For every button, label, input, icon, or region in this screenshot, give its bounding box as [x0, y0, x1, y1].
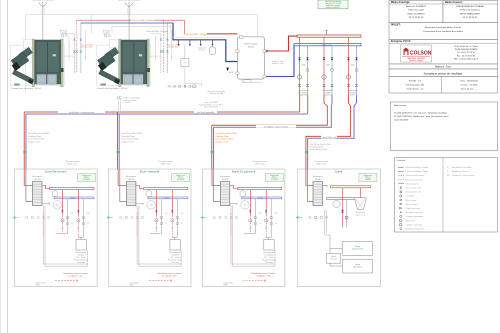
distribution pair P34 return	[214, 95, 333, 169]
buffer tank	[238, 37, 265, 79]
supply manifold (red)	[297, 35, 361, 37]
boiler CH2 pipe cluster	[150, 20, 179, 73]
secondary gray line	[112, 27, 173, 33]
svg-text:Tube acier DN80 - Calorifuge: Tube acier DN80 - Calorifuge	[146, 30, 168, 33]
svg-text:Comptage energie: Comptage energie	[252, 160, 267, 163]
svg-text:Reseau chauffage - Depart: Reseau chauffage - Depart	[406, 166, 429, 169]
svg-text:PROJET:: PROJET:	[391, 24, 401, 26]
air separator	[198, 45, 216, 55]
svg-text:DN40 - isole: DN40 - isole	[161, 164, 171, 166]
note under mains	[199, 101, 223, 108]
svg-text:Filtre a tamis: Filtre a tamis	[406, 199, 417, 202]
svg-text:03 27 49 99 38: 03 27 49 99 38	[409, 17, 424, 19]
svg-text:calorifuge 30mm: calorifuge 30mm	[80, 46, 93, 49]
tank outlet circle	[266, 50, 268, 52]
project note green box	[318, 0, 348, 9]
svg-text:Chaufferie bois dediee: Chaufferie bois dediee	[325, 1, 341, 3]
sub4 green info box	[359, 174, 377, 182]
svg-text:5 Rue du Castel: 5 Rue du Castel	[408, 9, 424, 12]
svg-text:59244 GRAND-FAYT: 59244 GRAND-FAYT	[460, 12, 481, 15]
sub4 riser in box	[306, 169, 313, 185]
svg-text:Mail : carlsoncol@orange.fr: Mail : carlsoncol@orange.fr	[454, 59, 479, 61]
substation 4 Eglise box	[298, 169, 381, 287]
svg-text:DN40: DN40	[301, 65, 305, 67]
svg-text:Chaudiere bois dechiquete - 15: Chaudiere bois dechiquete - 150 kW	[97, 87, 128, 90]
svg-text:ATELIER AMELIE FONTAINE: ATELIER AMELIE FONTAINE	[456, 5, 484, 8]
echelle table	[389, 77, 498, 94]
chimney flue at x=129.1	[118, 0, 141, 42]
legend box	[395, 158, 498, 233]
P12 second label	[194, 111, 217, 114]
safety group CH2	[103, 30, 111, 37]
svg-text:DN40 - isole: DN40 - isole	[316, 164, 326, 166]
tank to return manifold pipe	[266, 45, 294, 77]
svg-text:Fax : 03 27 25 49 80: Fax : 03 27 25 49 80	[457, 55, 476, 57]
svg-text:Aerotherme Thermibloc: Aerotherme Thermibloc	[452, 166, 472, 169]
riser substation 2	[117, 112, 119, 169]
boiler CH1 pipe cluster	[64, 20, 93, 73]
svg-text:3000 L: 3000 L	[248, 46, 255, 48]
svg-text:Purgeur automatique: Purgeur automatique	[406, 215, 424, 218]
riser note sub2	[121, 133, 142, 143]
boiler CH2 burner	[97, 47, 120, 85]
svg-text:Ballon tampon: Ballon tampon	[244, 43, 258, 46]
chimney flue at x=42.8	[32, 0, 55, 42]
svg-text:Entreprise CVC-P:: Entreprise CVC-P:	[391, 40, 411, 43]
tank drain loop	[242, 79, 262, 83]
sheet border left inner	[7, 0, 9, 333]
svg-text:70/50 C: 70/50 C	[365, 177, 371, 179]
sub4 supply bar	[323, 186, 328, 187]
riser entry label sub4	[314, 160, 329, 166]
title block: maitre d ouvrage box	[389, 1, 443, 23]
svg-text:de boues: de boues	[199, 50, 206, 52]
svg-text:Tube acier DN80 - Calorifuge: Tube acier DN80 - Calorifuge	[132, 19, 154, 22]
svg-text:Ecole maternelle: Ecole maternelle	[140, 170, 160, 174]
drain symbols row	[167, 85, 196, 88]
sub4 return bar	[327, 198, 363, 200]
distribution pair P12 return	[26, 95, 308, 169]
svg-text:Reseau vapeur: Reseau vapeur	[406, 182, 419, 185]
svg-text:Sonde de temperature: Sonde de temperature	[406, 228, 425, 231]
svg-text:Renovation thermique Mairie &: Renovation thermique Mairie & Ecole	[425, 26, 462, 29]
svg-text:Liaison enterree 80cm: Liaison enterree 80cm	[28, 138, 46, 141]
substation 2 Ecole maternelle	[107, 169, 191, 287]
svg-text:Liaison enterree 80cm: Liaison enterree 80cm	[215, 138, 233, 141]
svg-text:Construction d'une chaufferie: Construction d'une chaufferie bois dedie…	[423, 30, 464, 33]
svg-text:Groupe: Groupe	[355, 264, 360, 266]
return manifold (blue)	[294, 44, 361, 46]
title block: entreprise box	[389, 40, 498, 65]
tank ports	[236, 35, 266, 77]
tank side note	[272, 60, 285, 65]
primary supply label top	[131, 19, 154, 22]
svg-text:Calorifuge 30mm: Calorifuge 30mm	[121, 136, 135, 138]
svg-text:Date : 13/10/2023: Date : 13/10/2023	[460, 80, 478, 83]
manifold vent	[325, 30, 328, 35]
svg-text:Clapet anti-retour: Clapet anti-retour	[406, 207, 421, 210]
buffer tank label	[244, 43, 258, 49]
svg-text:disconnecteur BA: disconnecteur BA	[209, 92, 223, 95]
svg-text:Synoptique reseau de chauffage: Synoptique reseau de chauffage	[424, 71, 463, 75]
svg-text:Unite dessin : cm: Unite dessin : cm	[407, 88, 424, 91]
legend right column	[447, 166, 475, 177]
manifold circuit drop 2	[322, 37, 334, 96]
svg-text:Tube PE pre-isole 2xDN40: Tube PE pre-isole 2xDN40	[215, 133, 236, 135]
svg-text:Legende: Legende	[397, 160, 406, 162]
svg-text:59530 JOLIMETZ: 59530 JOLIMETZ	[407, 13, 425, 15]
chaufferie room outline	[26, 15, 258, 94]
svg-text:DN40: DN40	[350, 65, 354, 67]
riser valve set sub4	[305, 151, 308, 153]
svg-text:Vanne TA: Vanne TA	[406, 219, 415, 222]
svg-text:Compteur d'energie: Compteur d'energie	[406, 223, 423, 226]
P34 line label	[256, 125, 296, 128]
svg-text:Pompe des Circuits boucle: Pompe des Circuits boucle	[452, 174, 475, 177]
distribution pair PC supply to sub4	[306, 95, 351, 169]
batiment row	[389, 64, 498, 69]
svg-text:Longueur 25 ml: Longueur 25 ml	[28, 141, 41, 143]
svg-text:Maternelle: Maternelle	[300, 94, 308, 97]
svg-text:enterre: enterre	[350, 94, 355, 97]
pot a boues	[181, 45, 202, 87]
svg-text:Comptage energie: Comptage energie	[158, 160, 173, 163]
boiler CH2 body	[97, 39, 151, 87]
svg-text:Tube PE pre-isole 2xDN40: Tube PE pre-isole 2xDN40	[309, 144, 330, 146]
svg-text:Sonde T2 - bas: Sonde T2 - bas	[272, 63, 284, 65]
svg-text:Liaison enterree 80cm: Liaison enterree 80cm	[121, 138, 139, 141]
svg-text:Vanne d'arret - 2D: Vanne d'arret - 2D	[406, 187, 422, 190]
svg-text:Liaison enterree 80cm: Liaison enterree 80cm	[309, 148, 327, 151]
svg-text:Vanne 3 voies: Vanne 3 voies	[406, 204, 418, 206]
svg-text:eglise + nef: eglise + nef	[356, 214, 365, 216]
svg-text:Tube PE pre-isole 2xDN40: Tube PE pre-isole 2xDN40	[28, 133, 49, 135]
svg-text:Reseau chauffage - Retour: Reseau chauffage - Retour	[406, 170, 429, 173]
svg-text:Conduit fumee inox - sortie to: Conduit fumee inox - sortie toiture	[118, 0, 141, 2]
svg-text:59530 ENGLEFONTAINE: 59530 ENGLEFONTAINE	[455, 48, 479, 51]
riser note sub3	[215, 133, 236, 143]
svg-text:Calorifuge 30mm: Calorifuge 30mm	[28, 136, 42, 138]
svg-text:mail 13/10/2023: mail 13/10/2023	[394, 120, 409, 122]
riser entry label sub2	[158, 160, 173, 166]
note version box	[391, 102, 498, 151]
sub4 exchanger label	[313, 176, 323, 181]
synoptique row	[389, 69, 498, 77]
svg-text:Batiment : Tous: Batiment : Tous	[435, 66, 452, 69]
note above P12	[117, 97, 140, 112]
boiler CH1 burner	[11, 47, 34, 85]
flue drop line	[91, 15, 93, 34]
svg-text:Circulateur: Circulateur	[406, 195, 416, 198]
svg-text:Vanne d'arret - 3D: Vanne d'arret - 3D	[406, 191, 422, 194]
svg-text:Chaudiere bois dechiquete - 15: Chaudiere bois dechiquete - 150 kW	[10, 87, 41, 90]
svg-text:Tel : 03 27 27 59 15: Tel : 03 27 27 59 15	[457, 52, 475, 54]
svg-text:P=60kW: P=60kW	[365, 179, 372, 181]
svg-text:Tube acier DN80 - Calorifuge: Tube acier DN80 - Calorifuge	[185, 33, 207, 36]
substation 3 Mairie	[201, 169, 285, 287]
riser entry label sub3	[252, 160, 267, 166]
svg-text:Maitre d'oeuvre:: Maitre d'oeuvre:	[445, 1, 463, 4]
svg-text:60 kW: 60 kW	[315, 179, 321, 181]
sub4 lower boxes	[325, 210, 373, 273]
title block: projet box	[389, 23, 498, 40]
PC line label	[321, 135, 337, 139]
svg-text:33 Rue de Templeve: 33 Rue de Templeve	[460, 10, 481, 12]
sub4 aerotherme	[355, 188, 367, 217]
tank to supply manifold pipe	[266, 36, 297, 51]
svg-text:03 27 98 03 02: 03 27 98 03 02	[463, 17, 478, 19]
svg-text:calorifuge 30mm: calorifuge 30mm	[167, 46, 180, 49]
svg-text:Calorifuge 30mm: Calorifuge 30mm	[309, 147, 323, 149]
svg-text:DN40 - isole: DN40 - isole	[67, 164, 77, 166]
riser valve set sub2	[117, 151, 120, 153]
boiler CH1 body	[10, 39, 64, 87]
svg-text:DN40: DN40	[326, 65, 330, 67]
svg-text:V1_E06 13/10/2023 : 1ere esqui: V1_E06 13/10/2023 : 1ere esquisse - Syno…	[394, 112, 448, 115]
entreprise address	[454, 45, 479, 61]
safety group CH1	[60, 30, 68, 37]
manifold circuit drop 1	[297, 37, 309, 96]
riser note sub4	[309, 144, 330, 151]
distribution pair P34 supply	[212, 95, 327, 169]
riser entry label sub1	[65, 160, 80, 166]
svg-text:DN40 - isole: DN40 - isole	[255, 164, 265, 166]
svg-text:Vers Mairie - Liaison enterree: Vers Mairie - Liaison enterree	[264, 125, 289, 128]
primary supply label	[185, 33, 207, 36]
svg-text:Conduit fumee inox - sortie to: Conduit fumee inox - sortie toiture	[32, 0, 55, 2]
svg-text:Module: Module	[331, 256, 336, 258]
riser valve set sub3	[211, 151, 214, 153]
sub4 circuit drops	[341, 188, 348, 228]
svg-text:Groupe: Groupe	[355, 246, 360, 248]
TA valve arrow	[226, 68, 233, 74]
svg-text:Eglise: Eglise	[335, 170, 343, 174]
sub4 exchanger	[313, 182, 323, 206]
svg-text:Echelle : 1.0: Echelle : 1.0	[409, 81, 422, 83]
svg-text:Ecole Elementaire: Ecole Elementaire	[45, 170, 67, 174]
COLSON logo	[401, 45, 432, 62]
svg-text:Maitre d'ouvrage:: Maitre d'ouvrage:	[391, 1, 410, 4]
primary return main (blue)	[81, 22, 173, 24]
svg-text:Aerotherme Projecto: Aerotherme Projecto	[452, 170, 469, 173]
svg-text:Comptage energie: Comptage energie	[65, 160, 80, 163]
svg-text:Longueur 25 ml: Longueur 25 ml	[215, 141, 228, 143]
svg-text:Soupape de securite: Soupape de securite	[406, 211, 423, 214]
primary supply main (red)	[77, 20, 185, 34]
svg-text:Reseau d'eau froide: Reseau d'eau froide	[406, 178, 423, 181]
svg-text:Mairie de JOLIMETZ: Mairie de JOLIMETZ	[406, 5, 427, 8]
svg-text:Note version:: Note version:	[394, 104, 407, 107]
legend items	[398, 166, 429, 231]
svg-text:Vers Ecoles - Liaison enterree: Vers Ecoles - Liaison enterree	[69, 111, 94, 114]
svg-text:Puissance 2 x 150 kW: Puissance 2 x 150 kW	[325, 3, 341, 5]
title block: maitre d oeuvre box	[443, 1, 498, 23]
svg-text:TA-57: TA-57	[229, 71, 234, 74]
svg-text:Mairie & Logements: Mairie & Logements	[232, 170, 256, 174]
svg-text:COLSON: COLSON	[410, 51, 432, 57]
svg-text:Tube PE pre-isole 2xDN40: Tube PE pre-isole 2xDN40	[121, 133, 142, 135]
P12 line label	[58, 111, 105, 114]
riser valve set sub1	[23, 151, 26, 153]
svg-text:V2_E06 13/10/2023 : Modificati: V2_E06 13/10/2023 : Modification / ajout…	[394, 115, 448, 118]
svg-text:Liaison ext.: Liaison ext.	[324, 94, 333, 97]
sheet border left outer	[0, 0, 2, 333]
svg-text:Version : V2_E06: Version : V2_E06	[461, 84, 479, 87]
distribution pair P12 supply	[24, 95, 300, 169]
svg-text:Regime eau: Regime eau	[364, 175, 373, 177]
sub4 symbols row	[296, 216, 328, 219]
distribution pair PC return to sub4	[308, 95, 357, 169]
svg-text:suivant DTU 65.20: suivant DTU 65.20	[204, 106, 218, 109]
svg-text:27 Bis Route de La Calexie: 27 Bis Route de La Calexie	[454, 45, 479, 48]
svg-text:Liaison DN50 - isole: Liaison DN50 - isole	[321, 137, 336, 139]
svg-text:Vers Ecole maternelle: Vers Ecole maternelle	[197, 111, 214, 114]
remplissage note	[207, 90, 225, 95]
svg-text:Format papier : A0: Format papier : A0	[406, 84, 425, 87]
svg-text:Comptage energie: Comptage energie	[314, 160, 329, 163]
insulation outline under return main	[171, 25, 225, 37]
riser note sub1	[28, 133, 49, 143]
svg-text:Reseau d'eau chaude: Reseau d'eau chaude	[406, 175, 424, 177]
manifold circuit drop 3	[346, 37, 358, 96]
svg-text:Longueur 25 ml: Longueur 25 ml	[121, 141, 134, 143]
svg-text:Regime eau 80/60 C: Regime eau 80/60 C	[326, 7, 341, 9]
sub4 pump	[333, 200, 340, 207]
svg-text:Trace du jour : ---: Trace du jour : ---	[461, 88, 478, 91]
substation 1 Ecole Elementaire	[13, 169, 97, 287]
svg-text:Calorifuge 30mm: Calorifuge 30mm	[215, 136, 229, 138]
svg-text:2 x DN50: 2 x DN50	[124, 102, 131, 104]
return main stubs	[178, 40, 214, 46]
